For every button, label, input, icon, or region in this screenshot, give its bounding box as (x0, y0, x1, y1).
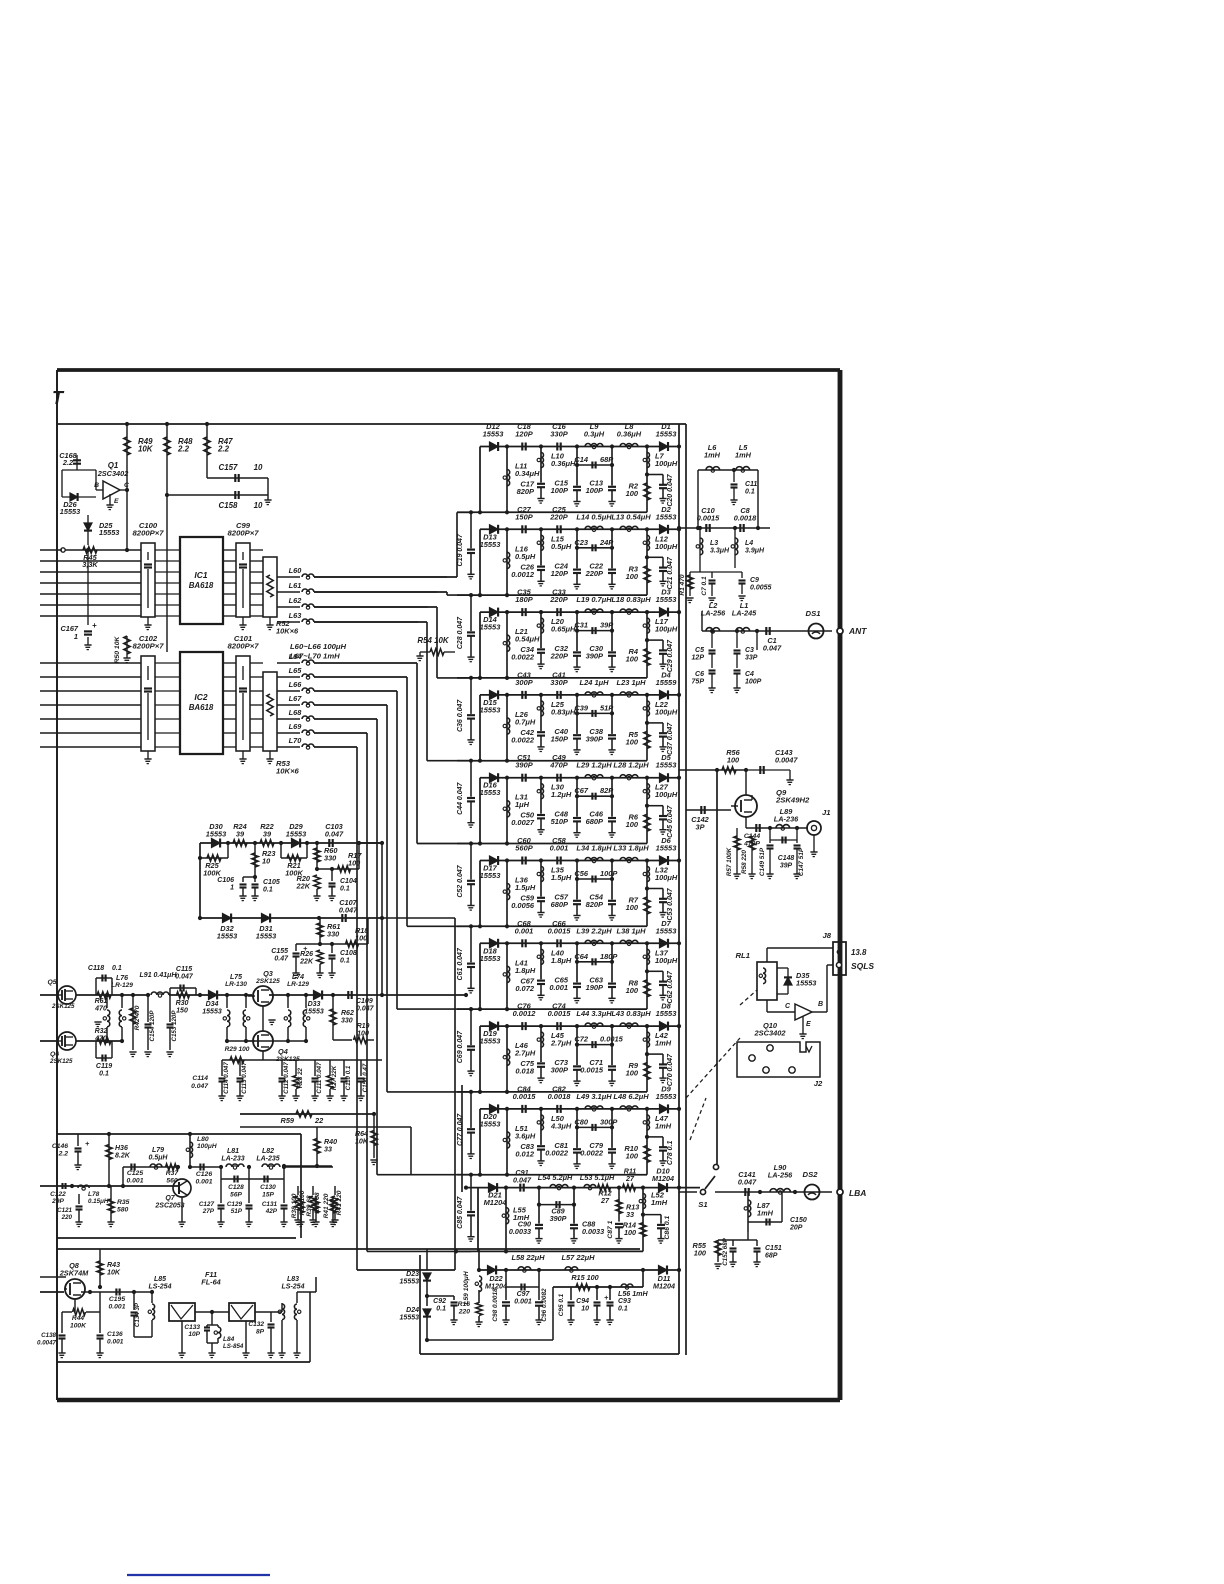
svg-text:15553: 15553 (400, 1315, 420, 1322)
svg-text:0.047: 0.047 (191, 1083, 209, 1090)
svg-text:0.001: 0.001 (109, 1304, 126, 1311)
svg-text:C125: C125 (127, 1170, 143, 1177)
svg-text:C4: C4 (745, 671, 754, 678)
svg-text:C5: C5 (695, 647, 704, 654)
svg-text:R50 10K: R50 10K (114, 636, 121, 664)
svg-text:100P: 100P (551, 486, 568, 495)
svg-text:2SK49H2: 2SK49H2 (775, 796, 810, 805)
svg-text:L64: L64 (289, 652, 302, 661)
svg-text:LA-256: LA-256 (768, 1171, 793, 1180)
svg-text:0.1: 0.1 (745, 489, 755, 496)
svg-text:27: 27 (625, 1175, 635, 1183)
svg-text:75P: 75P (692, 679, 705, 686)
svg-text:0.15μH: 0.15μH (88, 1198, 109, 1205)
svg-text:1.2μH: 1.2μH (551, 790, 572, 799)
svg-text:LR-129: LR-129 (111, 982, 133, 989)
svg-text:L4: L4 (745, 540, 753, 547)
svg-text:C151: C151 (765, 1245, 782, 1252)
svg-text:R54 10K: R54 10K (417, 636, 449, 645)
svg-text:2.7μH: 2.7μH (514, 1049, 536, 1058)
svg-text:R26: R26 (300, 951, 313, 958)
svg-text:300P: 300P (515, 678, 532, 687)
svg-text:0.1: 0.1 (99, 1071, 109, 1078)
svg-text:R59: R59 (281, 1116, 295, 1125)
svg-text:24P: 24P (599, 538, 613, 547)
svg-text:0.1: 0.1 (340, 958, 350, 965)
svg-text:M1204: M1204 (653, 1282, 675, 1291)
svg-text:2SK125: 2SK125 (49, 1058, 73, 1065)
svg-text:0.5μH: 0.5μH (551, 542, 572, 551)
svg-text:R38 100: R38 100 (291, 1193, 298, 1218)
svg-text:0.54μH: 0.54μH (515, 635, 540, 644)
svg-text:J1: J1 (822, 808, 831, 817)
svg-text:1.5μH: 1.5μH (515, 883, 536, 892)
svg-text:SQLS: SQLS (851, 961, 874, 971)
svg-text:L69: L69 (289, 722, 303, 731)
svg-text:L91 0.41μH: L91 0.41μH (140, 972, 178, 979)
svg-text:+: + (85, 1139, 90, 1148)
svg-text:L67: L67 (289, 694, 303, 703)
svg-text:LR-129: LR-129 (287, 981, 309, 988)
svg-text:680P: 680P (551, 900, 568, 909)
svg-text:15553: 15553 (480, 871, 502, 880)
svg-text:2.7μH: 2.7μH (550, 1039, 572, 1048)
svg-text:L43 0.83μH: L43 0.83μH (611, 1009, 651, 1018)
svg-text:FL-64: FL-64 (201, 1278, 221, 1287)
svg-text:470P: 470P (549, 761, 567, 770)
svg-text:R15 100: R15 100 (571, 1273, 598, 1282)
svg-text:4.3μH: 4.3μH (550, 1121, 572, 1130)
svg-text:15553: 15553 (217, 932, 237, 941)
svg-text:150: 150 (176, 1008, 188, 1015)
svg-text:L49 3.1μH: L49 3.1μH (576, 1092, 612, 1101)
svg-text:C6: C6 (695, 671, 704, 678)
svg-text:15553: 15553 (480, 1037, 502, 1046)
svg-text:LS-254: LS-254 (282, 1284, 305, 1291)
svg-text:Q7: Q7 (165, 1195, 175, 1202)
svg-text:L24 1μH: L24 1μH (580, 678, 610, 687)
svg-text:R57 100K: R57 100K (726, 847, 733, 876)
svg-text:C122: C122 (50, 1191, 66, 1198)
svg-text:C11: C11 (745, 481, 757, 488)
svg-text:330: 330 (324, 854, 336, 863)
svg-text:LR-130: LR-130 (225, 981, 247, 988)
svg-text:0.0055: 0.0055 (750, 585, 772, 592)
svg-text:10K×6: 10K×6 (276, 767, 300, 776)
svg-text:+: + (604, 1293, 609, 1302)
svg-text:220P: 220P (550, 652, 568, 661)
svg-text:22: 22 (314, 1116, 323, 1125)
svg-text:IC1: IC1 (194, 570, 207, 580)
svg-text:0.1: 0.1 (340, 886, 350, 893)
svg-text:0.1: 0.1 (618, 1306, 628, 1313)
svg-text:0.0022: 0.0022 (511, 653, 535, 662)
svg-text:100: 100 (357, 1031, 369, 1038)
svg-text:100: 100 (694, 1249, 706, 1258)
svg-text:L74: L74 (292, 974, 304, 981)
svg-text:0.34μH: 0.34μH (515, 469, 540, 478)
svg-text:0.36μH: 0.36μH (551, 459, 576, 468)
svg-text:C131: C131 (262, 1201, 278, 1208)
svg-text:15553: 15553 (480, 540, 502, 549)
svg-text:33P: 33P (745, 655, 758, 662)
svg-text:C92: C92 (433, 1298, 446, 1305)
svg-text:DS1: DS1 (806, 609, 821, 618)
svg-text:L44 3.3μH: L44 3.3μH (576, 1009, 612, 1018)
svg-text:15P: 15P (262, 1192, 274, 1199)
svg-text:100P: 100P (600, 869, 617, 878)
svg-text:0.001: 0.001 (515, 926, 534, 935)
svg-text:C23: C23 (574, 538, 589, 547)
svg-text:2.2: 2.2 (62, 458, 73, 467)
svg-text:C39: C39 (574, 703, 589, 712)
svg-text:0.1: 0.1 (436, 1306, 446, 1313)
svg-text:2SC3402: 2SC3402 (97, 469, 129, 478)
svg-text:10: 10 (262, 857, 270, 866)
svg-text:C77 0.047: C77 0.047 (457, 1113, 464, 1146)
svg-text:C121: C121 (57, 1207, 72, 1214)
svg-text:C118: C118 (88, 965, 104, 972)
svg-text:R37: R37 (166, 1170, 180, 1177)
svg-text:0.5μH: 0.5μH (515, 552, 536, 561)
svg-text:L13 0.54μH: L13 0.54μH (611, 512, 651, 521)
svg-text:0.1: 0.1 (263, 887, 273, 894)
svg-text:15553: 15553 (656, 1092, 678, 1101)
svg-text:0.0047: 0.0047 (775, 756, 798, 765)
svg-text:L59 100μH: L59 100μH (463, 1271, 470, 1304)
svg-text:C61 0.047: C61 0.047 (457, 947, 464, 980)
svg-text:LA-235: LA-235 (256, 1156, 279, 1163)
svg-text:0.047: 0.047 (356, 1006, 375, 1013)
svg-text:8200P×7: 8200P×7 (228, 529, 260, 538)
svg-text:180P: 180P (600, 952, 617, 961)
svg-text:L18 0.83μH: L18 0.83μH (611, 595, 651, 604)
svg-text:1.5μH: 1.5μH (551, 873, 572, 882)
svg-text:15553: 15553 (483, 430, 505, 439)
svg-text:0.001: 0.001 (514, 1299, 532, 1306)
svg-text:13.8: 13.8 (851, 948, 867, 957)
svg-text:BA618: BA618 (189, 581, 214, 590)
svg-text:330: 330 (341, 1018, 353, 1025)
svg-text:0.001: 0.001 (550, 844, 569, 853)
svg-text:0.047: 0.047 (325, 830, 344, 839)
svg-text:C114 0.047: C114 0.047 (223, 1062, 230, 1094)
svg-text:C157: C157 (219, 463, 239, 472)
svg-text:390P: 390P (586, 652, 603, 661)
svg-text:0.001: 0.001 (196, 1179, 213, 1186)
svg-text:0.0018: 0.0018 (734, 514, 757, 523)
svg-text:L82: L82 (262, 1148, 274, 1155)
svg-text:0.001: 0.001 (107, 1339, 124, 1346)
svg-text:15553: 15553 (286, 830, 306, 839)
svg-text:10K×6: 10K×6 (276, 627, 299, 636)
svg-text:15553: 15553 (656, 595, 678, 604)
svg-text:R30: R30 (176, 1000, 189, 1007)
svg-text:L65: L65 (289, 666, 303, 675)
svg-text:1: 1 (230, 885, 234, 892)
svg-text:100: 100 (355, 934, 367, 943)
svg-text:D33: D33 (308, 1001, 321, 1008)
svg-text:0.012: 0.012 (515, 1149, 535, 1158)
svg-text:220P: 220P (585, 569, 603, 578)
svg-text:C146: C146 (52, 1143, 68, 1150)
svg-text:L14 0.5μH: L14 0.5μH (576, 512, 612, 521)
svg-text:R19: R19 (357, 1023, 370, 1030)
svg-text:C195: C195 (109, 1296, 125, 1303)
svg-text:100μH: 100μH (655, 707, 678, 716)
svg-text:C29 0.047: C29 0.047 (667, 639, 674, 672)
svg-text:580: 580 (117, 1207, 129, 1214)
svg-text:27: 27 (600, 1196, 610, 1205)
svg-text:12P: 12P (692, 655, 705, 662)
svg-text:Q4: Q4 (278, 1047, 288, 1056)
svg-text:C36 0.047: C36 0.047 (457, 699, 464, 732)
svg-text:190P: 190P (586, 983, 603, 992)
svg-text:15553: 15553 (480, 705, 502, 714)
svg-text:100μH: 100μH (655, 956, 678, 965)
svg-text:8.2K: 8.2K (115, 1153, 131, 1160)
svg-text:L60: L60 (289, 566, 302, 575)
svg-text:C44 0.047: C44 0.047 (457, 781, 464, 814)
svg-text:L66: L66 (289, 680, 303, 689)
svg-text:0.0056: 0.0056 (511, 901, 535, 910)
svg-text:LA-245: LA-245 (732, 609, 757, 618)
svg-text:0.047: 0.047 (763, 644, 782, 653)
svg-text:15553: 15553 (480, 623, 502, 632)
svg-text:C45 0.047: C45 0.047 (667, 804, 674, 837)
svg-text:10K: 10K (107, 1269, 121, 1277)
svg-text:C96 0.0082: C96 0.0082 (541, 1288, 548, 1322)
svg-text:C155: C155 (271, 948, 288, 955)
svg-text:S1: S1 (698, 1200, 707, 1209)
svg-text:C147 51P: C147 51P (798, 847, 805, 876)
svg-text:C119: C119 (96, 1063, 112, 1070)
svg-text:8200P×7: 8200P×7 (133, 529, 165, 538)
svg-text:680P: 680P (586, 817, 603, 826)
svg-text:J2: J2 (814, 1079, 823, 1088)
svg-text:100μH: 100μH (655, 790, 678, 799)
svg-text:C150: C150 (790, 1217, 807, 1224)
svg-text:0.0033: 0.0033 (582, 1227, 604, 1236)
svg-text:C134 3P: C134 3P (134, 1302, 141, 1327)
svg-text:100: 100 (626, 986, 639, 995)
svg-text:2.2: 2.2 (177, 445, 190, 454)
svg-text:15553: 15553 (480, 954, 502, 963)
svg-text:ANT: ANT (848, 626, 867, 636)
svg-text:C130: C130 (260, 1184, 276, 1191)
svg-text:C9: C9 (750, 577, 759, 584)
svg-text:15553: 15553 (256, 932, 276, 941)
svg-text:0.047: 0.047 (513, 1176, 532, 1185)
svg-text:3.9μH: 3.9μH (745, 548, 765, 555)
svg-text:1μH: 1μH (515, 800, 530, 809)
svg-text:100μH: 100μH (655, 542, 678, 551)
svg-text:220P: 220P (549, 512, 567, 521)
svg-text:L54 5.2μH: L54 5.2μH (538, 1173, 573, 1182)
svg-text:R29 100: R29 100 (225, 1046, 250, 1053)
svg-text:C111 0.047: C111 0.047 (316, 1062, 323, 1094)
svg-text:15553: 15553 (206, 830, 226, 839)
svg-text:L57 22μH: L57 22μH (561, 1253, 595, 1262)
svg-text:L81: L81 (227, 1148, 239, 1155)
svg-text:1: 1 (74, 632, 78, 641)
svg-text:15553: 15553 (60, 507, 80, 516)
svg-text:0.3μH: 0.3μH (584, 430, 605, 439)
svg-text:C52 0.047: C52 0.047 (457, 864, 464, 897)
svg-text:LA-256: LA-256 (701, 609, 726, 618)
svg-text:C64: C64 (574, 952, 589, 961)
svg-text:C128: C128 (228, 1184, 244, 1191)
svg-text:C152 68P: C152 68P (722, 1237, 729, 1265)
svg-text:0.0015: 0.0015 (580, 1066, 604, 1075)
svg-text:C93: C93 (618, 1298, 631, 1305)
svg-text:C70 0.047: C70 0.047 (667, 1053, 674, 1086)
svg-text:510P: 510P (551, 817, 568, 826)
svg-text:L85: L85 (154, 1276, 166, 1283)
svg-text:820P: 820P (586, 900, 603, 909)
svg-text:L23 1μH: L23 1μH (617, 678, 647, 687)
svg-text:R42 470: R42 470 (134, 1005, 141, 1030)
svg-text:R39 68: R39 68 (306, 1195, 313, 1216)
svg-text:C148: C148 (778, 855, 795, 862)
svg-text:C108: C108 (340, 950, 357, 957)
svg-text:39: 39 (236, 830, 245, 839)
svg-text:300P: 300P (600, 1117, 617, 1126)
svg-text:L34 1.8μH: L34 1.8μH (576, 844, 612, 853)
svg-text:390P: 390P (550, 1214, 567, 1223)
svg-text:10K: 10K (138, 445, 154, 454)
svg-text:D24: D24 (406, 1307, 419, 1314)
svg-text:470: 470 (94, 1006, 107, 1013)
svg-text:150P: 150P (551, 734, 568, 743)
svg-text:10: 10 (254, 463, 263, 472)
svg-text:C127: C127 (199, 1201, 215, 1208)
svg-text:L68: L68 (289, 708, 303, 717)
svg-text:C138: C138 (41, 1332, 56, 1339)
svg-text:L3: L3 (710, 540, 718, 547)
svg-text:1.8μH: 1.8μH (551, 956, 572, 965)
svg-text:C133: C133 (184, 1324, 200, 1331)
svg-text:150P: 150P (515, 512, 532, 521)
svg-text:0.7μH: 0.7μH (515, 717, 536, 726)
svg-text:+: + (92, 621, 97, 630)
svg-text:3P: 3P (696, 823, 705, 832)
svg-text:L75: L75 (230, 974, 242, 981)
svg-text:L60~L66 100μH: L60~L66 100μH (290, 642, 346, 651)
svg-text:0.047: 0.047 (339, 906, 358, 915)
svg-text:820P: 820P (517, 487, 534, 496)
svg-text:220P: 220P (549, 595, 567, 604)
svg-text:390P: 390P (586, 734, 603, 743)
svg-text:0.65μH: 0.65μH (551, 625, 576, 634)
svg-text:120P: 120P (551, 569, 568, 578)
svg-text:0.018: 0.018 (515, 1067, 535, 1076)
svg-text:0.001: 0.001 (549, 983, 568, 992)
svg-text:15553: 15553 (656, 926, 678, 935)
svg-text:0.47: 0.47 (274, 956, 289, 963)
svg-text:C20 0.047: C20 0.047 (667, 473, 674, 506)
svg-text:1mH: 1mH (655, 1121, 672, 1130)
svg-text:100: 100 (626, 903, 639, 912)
svg-text:C114: C114 (192, 1075, 208, 1082)
svg-text:0.0012: 0.0012 (511, 570, 535, 579)
svg-text:0.0015: 0.0015 (548, 1009, 572, 1018)
svg-text:L29 1.2μH: L29 1.2μH (576, 761, 612, 770)
svg-text:2SK74M: 2SK74M (59, 1269, 89, 1278)
svg-text:C67: C67 (574, 786, 589, 795)
svg-text:0.0015: 0.0015 (697, 514, 720, 523)
svg-text:100P: 100P (586, 486, 603, 495)
svg-text:E: E (114, 498, 119, 505)
svg-text:C69 0.047: C69 0.047 (457, 1030, 464, 1063)
svg-text:0.0015: 0.0015 (548, 926, 572, 935)
svg-text:0.0047: 0.0047 (37, 1340, 57, 1347)
svg-text:C110 0.1: C110 0.1 (345, 1065, 352, 1090)
svg-text:L84: L84 (223, 1336, 235, 1343)
svg-text:R32: R32 (95, 1028, 108, 1035)
svg-text:L76: L76 (116, 975, 128, 982)
svg-text:L78: L78 (88, 1191, 100, 1198)
svg-text:1mH: 1mH (735, 451, 752, 460)
svg-text:15553: 15553 (99, 528, 119, 537)
svg-text:15553: 15553 (304, 1009, 324, 1016)
svg-text:C105: C105 (263, 879, 280, 886)
svg-text:100μH: 100μH (655, 625, 678, 634)
svg-text:Q3: Q3 (263, 969, 273, 978)
svg-text:330P: 330P (550, 678, 567, 687)
svg-text:220: 220 (61, 1214, 73, 1221)
svg-text:100: 100 (626, 737, 639, 746)
svg-text:15553: 15553 (656, 512, 678, 521)
svg-text:Q6: Q6 (50, 1051, 59, 1058)
svg-text:15553: 15553 (656, 844, 678, 853)
svg-text:15553: 15553 (656, 1009, 678, 1018)
svg-text:R44: R44 (72, 1315, 85, 1322)
svg-text:120P: 120P (515, 430, 532, 439)
svg-text:C28 0.047: C28 0.047 (457, 616, 464, 649)
svg-text:100: 100 (626, 655, 639, 664)
svg-text:L62: L62 (289, 596, 302, 605)
svg-text:0.0022: 0.0022 (545, 1148, 569, 1157)
svg-text:27P: 27P (202, 1208, 215, 1215)
svg-text:R1 470: R1 470 (679, 574, 686, 595)
svg-text:100: 100 (624, 1228, 636, 1237)
svg-text:33: 33 (324, 1146, 332, 1154)
svg-text:C136: C136 (107, 1331, 123, 1338)
svg-text:C156 0.47: C156 0.47 (362, 1063, 369, 1092)
svg-text:0.001: 0.001 (127, 1178, 144, 1185)
svg-text:C129: C129 (227, 1201, 243, 1208)
svg-text:D34: D34 (206, 1001, 219, 1008)
svg-text:C154 120P: C154 120P (149, 1010, 156, 1042)
svg-text:L48 6.2μH: L48 6.2μH (613, 1092, 649, 1101)
svg-text:1mH: 1mH (651, 1198, 668, 1207)
svg-text:C97: C97 (517, 1291, 531, 1298)
svg-text:0.1: 0.1 (112, 965, 122, 972)
svg-text:C14: C14 (574, 455, 589, 464)
svg-text:C149 51P: C149 51P (759, 847, 766, 876)
svg-text:L83: L83 (287, 1276, 299, 1283)
svg-text:L79: L79 (152, 1147, 164, 1154)
svg-text:15559: 15559 (656, 678, 678, 687)
svg-text:3.6μH: 3.6μH (515, 1131, 536, 1140)
svg-text:100: 100 (626, 1151, 639, 1160)
svg-text:2.2: 2.2 (217, 445, 230, 454)
svg-text:C19 0.047: C19 0.047 (457, 533, 464, 566)
svg-text:IC2: IC2 (194, 692, 207, 702)
svg-text:15553: 15553 (656, 761, 678, 770)
svg-text:LA-236: LA-236 (774, 815, 799, 824)
